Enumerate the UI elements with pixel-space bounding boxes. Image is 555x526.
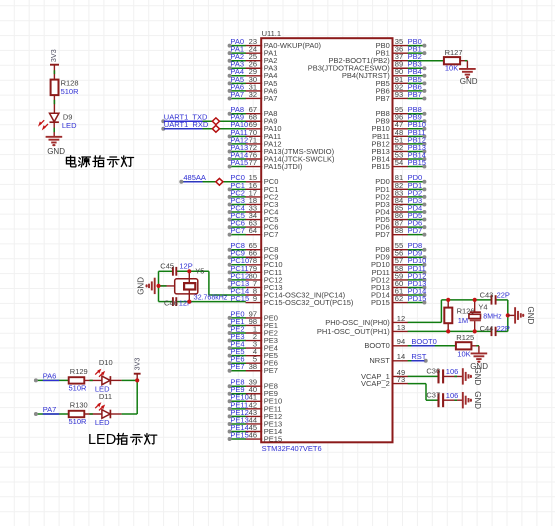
svg-text:U11.1: U11.1 [262,29,281,38]
pin 83 PD2 (right) [375,188,426,201]
pin 58 PD11 (right) [372,264,427,277]
svg-text:GND: GND [473,368,482,386]
svg-text:R125: R125 [456,333,474,342]
pin 48 PB11 (right) [372,128,426,141]
pin 42 PE11 (left) [228,400,282,413]
pin 1 PE2 (left) [228,324,278,337]
svg-text:PA7: PA7 [43,405,57,414]
svg-text:Y4: Y4 [478,303,487,312]
capacitor C37 106 [426,390,458,407]
pin 67 PA8 (left) [228,105,278,118]
svg-text:PC15-OSC32_OUT(PC15): PC15-OSC32_OUT(PC15) [264,298,354,307]
ground GND (power indicator) [46,137,66,156]
pin 66 PC9 (left) [228,249,279,262]
svg-text:C37: C37 [426,390,440,399]
pin 71 PA12 (left) [228,135,282,148]
svg-text:BOOT0: BOOT0 [364,341,389,350]
wire PA7 to R130 [34,412,69,416]
pin 61 PD14 (right) [371,286,426,299]
junction node Y4 top [473,298,477,302]
resistor R125 10K [456,333,474,358]
net port UART1_TXD [164,113,208,122]
svg-text:GND: GND [137,277,146,295]
wire PC15 to crystal (bottom rail) [159,271,246,301]
svg-text:R127: R127 [445,48,463,57]
net flag diamond PA9 [212,118,219,125]
capacitor C46 12P [164,297,192,307]
svg-text:510R: 510R [69,417,88,426]
wire BOOT0 to R125 [408,345,456,347]
svg-text:54: 54 [395,158,403,167]
pin 64 PC7 (left) [228,226,279,239]
svg-text:PE7: PE7 [230,362,244,371]
pin 69 PA10 (left) [230,120,281,133]
svg-text:STM32F407VET6: STM32F407VET6 [262,444,322,453]
svg-text:8MHz: 8MHz [483,313,502,320]
pin 4 PE5 (left) [228,347,278,360]
pin 53 PB14 (right) [371,150,426,163]
wire PA9 UART1_TXD [161,119,246,123]
svg-text:22P: 22P [497,324,510,333]
net port UART1_RXD [164,120,209,129]
svg-text:12P: 12P [179,261,192,270]
wire R130 to D11 [84,413,102,415]
net flag diamond PA10 [212,125,219,132]
LED D10 [95,358,113,393]
svg-text:BOOT0: BOOT0 [411,337,436,346]
svg-text:510R: 510R [61,87,80,96]
wire R125 to GND [471,346,479,353]
svg-text:PA7: PA7 [264,94,278,103]
pin 73 VCAP_2 [361,375,408,388]
svg-text:UART1_RXD: UART1_RXD [164,120,209,129]
pin 81 PD0 (right) [375,173,426,186]
pin 92 PB6 (right) [376,82,427,95]
pin 24 PA1 (left) [228,45,278,58]
svg-text:PE15: PE15 [264,434,282,443]
capacitor C43 22P [480,291,510,305]
resistor R126 1M [444,300,474,332]
pin 96 PB9 (right) [376,113,427,126]
LED D9 [39,112,77,130]
pin 49 VCAP_1 [361,368,408,381]
power flag 3V3 (top-left) [49,49,59,79]
pin 84 PD3 (right) [375,196,426,209]
svg-text:1M: 1M [458,316,468,325]
pin 89 PB3 (right) [308,60,427,73]
pin 33 PC4 (left) [228,203,279,216]
pin 26 PA3 (left) [228,60,278,73]
pin 46 PE15 (left) [228,430,283,443]
pin 36 PB1 (right) [376,45,427,58]
svg-text:GND: GND [473,391,482,409]
pin 9 PC15 (left) [230,294,354,307]
svg-text:PE15: PE15 [230,430,248,439]
svg-text:3V3: 3V3 [133,358,142,371]
svg-text:GND: GND [526,307,535,325]
caption 电源指示灯 [66,156,133,167]
junction node R126 top [446,298,450,302]
pin 47 PB10 (right) [371,120,426,133]
junction node Y4 bottom [473,329,477,333]
pin 70 PA11 (left) [228,128,281,141]
svg-text:C43: C43 [480,291,494,300]
resistor R130 510R [69,401,88,426]
pin 87 PD6 (right) [375,219,426,232]
resistor R127 10K [444,48,463,73]
svg-text:R130: R130 [70,401,88,410]
pin 76 PA14 (left) [228,150,335,163]
svg-text:C36: C36 [426,367,440,376]
pin 60 PD13 (right) [371,279,426,292]
pin 17 PC2 (left) [228,188,279,201]
junction node 3V3/LED rail [135,378,139,382]
wire VCAP_2 to C37 [408,384,439,401]
net label BOOT0 [411,337,436,346]
svg-text:46: 46 [249,430,257,439]
svg-text:R129: R129 [70,367,88,376]
svg-text:C45: C45 [160,261,174,270]
svg-text:GND: GND [460,77,478,86]
pin 41 PE10 (left) [228,393,283,406]
pin 52 PB13 (right) [371,143,426,156]
op-amp U11.1 STM32F407VET6 chip body [261,29,392,453]
power flag 3V3 (LED section) [133,358,142,381]
pin 32 PA7 (left) [228,90,278,103]
pin 23 PA0 (left) [228,37,322,50]
svg-text:PC7: PC7 [264,230,279,239]
svg-text:77: 77 [249,158,257,167]
pin 59 PD12 (right) [371,271,426,284]
ground GND (C37), rotated right [463,391,482,409]
pin 82 PD1 (right) [375,181,426,194]
pin 35 PB0 (right) [376,37,427,50]
svg-text:9: 9 [253,294,257,303]
svg-text:PD7: PD7 [375,230,390,239]
svg-text:14: 14 [397,352,405,361]
svg-text:22P: 22P [497,291,510,300]
svg-text:32.768kHz: 32.768kHz [194,294,228,301]
pin 51 PB12 (right) [371,135,426,148]
pin 88 PD7 (right) [375,226,426,239]
pin 45 PE14 (left) [228,423,283,436]
svg-text:C46: C46 [164,299,178,308]
svg-text:106: 106 [446,367,459,376]
pin 86 PD5 (right) [375,211,426,224]
pin 3 PE4 (left) [228,340,278,353]
svg-text:13: 13 [397,323,405,332]
svg-text:PB7: PB7 [408,90,422,99]
svg-text:510R: 510R [69,383,88,392]
net port 485AA [183,173,206,182]
svg-text:PA7: PA7 [230,90,244,99]
ground GND (R127) [459,69,478,86]
wire PA10 UART1_RXD [161,127,246,131]
svg-text:PD7: PD7 [408,226,423,235]
pin 57 PD10 (right) [371,256,426,269]
wire PB2 to R127 [408,60,444,62]
pin 34 PC5 (left) [228,211,279,224]
capacitor C36 106 [426,367,458,384]
net label RST [408,352,428,363]
crystal Y4 8MHz [469,300,502,332]
wire vertical 3V3 rail (LED section) [136,380,138,414]
wire D9 to GND [53,122,55,136]
wire D10 to 3V3 rail [110,379,137,381]
pin 85 PD4 (right) [375,203,426,216]
pin 13 PH1-OSC_OUT(PH1) [317,323,408,336]
pin 80 PC12 (left) [228,271,283,284]
svg-text:PB7: PB7 [376,94,390,103]
pin 29 PA4 (left) [228,67,278,80]
svg-text:73: 73 [397,375,405,384]
wire PH1 bottom rail [408,300,508,332]
pin 55 PD8 (right) [375,241,426,254]
ground GND (R125) [470,353,488,370]
svg-text:62: 62 [395,294,403,303]
pin 16 PC1 (left) [228,181,279,194]
svg-text:106: 106 [446,391,459,400]
svg-text:PC7: PC7 [230,226,245,235]
svg-text:3V3: 3V3 [49,49,58,62]
wire R129 to D10 [84,379,102,381]
pin 78 PC10 (left) [228,256,283,269]
svg-text:LED: LED [62,121,77,130]
svg-text:93: 93 [395,90,403,99]
pin 14 NRST [369,352,408,365]
svg-text:LED: LED [88,432,116,448]
svg-text:32: 32 [249,90,257,99]
ground GND (8MHz), rotated right [508,307,535,325]
junction node crystal bottom [187,300,191,304]
pin 94 BOOT0 [364,337,408,350]
svg-text:D11: D11 [99,392,112,401]
svg-text:PD15: PD15 [408,294,427,303]
svg-text:10K: 10K [457,349,470,358]
svg-text:38: 38 [249,362,257,371]
svg-text:NRST: NRST [369,356,390,365]
resistor R128 510R [51,78,80,95]
ground GND (C36), rotated right [463,368,482,386]
svg-text:GND: GND [47,147,65,156]
LED D11 [95,392,112,427]
pin 12 PH0-OSC_IN(PH0) [325,314,408,327]
wire C36 to GND [443,375,463,377]
pin 37 PB2 (right) [329,52,422,65]
pin 38 PE7 (left) [228,362,278,375]
pin 7 PC13 (left) [228,279,283,292]
pin 5 PE6 (left) [228,355,278,368]
svg-text:PD15: PD15 [371,298,390,307]
svg-text:Y5: Y5 [195,267,204,276]
pin 30 PA5 (left) [228,75,278,88]
svg-text:PB15: PB15 [408,158,426,167]
net flag diamond PC0 [216,178,223,185]
wire D11 to 3V3 rail [110,413,137,415]
pin 56 PD9 (right) [375,249,426,262]
wire R128 to D9 [53,95,55,113]
net label PA6 [43,371,60,380]
pin 77 PA15 (left) [228,158,303,171]
svg-text:PA15(JTDI): PA15(JTDI) [264,162,303,171]
svg-text:485AA: 485AA [183,173,206,182]
pin 95 PB8 (right) [376,105,427,118]
pin 68 PA9 (left) [230,113,277,126]
pin 62 PD15 (right) [371,294,426,307]
junction node crystal top [187,269,191,273]
pin 79 PC11 (left) [228,264,282,277]
pin 43 PE12 (left) [228,408,283,421]
pin 39 PE8 (left) [228,378,278,391]
svg-text:D10: D10 [99,358,113,367]
svg-text:12: 12 [397,314,405,323]
svg-text:LED: LED [95,418,110,427]
junction node R126 bottom [446,329,450,333]
pin 25 PA2 (left) [228,52,278,65]
pin 90 PB4 (right) [342,67,427,80]
pin 8 PC14 (left) [230,286,345,299]
pin 63 PC6 (left) [228,219,279,232]
svg-text:94: 94 [397,337,405,346]
capacitor C45 12P [160,261,192,275]
resistor R129 510R [69,367,88,392]
wire VCAP_1 to C36 [408,375,439,377]
svg-text:RST: RST [411,352,426,361]
svg-text:64: 64 [249,226,257,235]
svg-text:PH1-OSC_OUT(PH1): PH1-OSC_OUT(PH1) [317,327,390,336]
svg-text:PA6: PA6 [43,371,57,380]
pin 91 PB5 (right) [376,75,427,88]
svg-text:88: 88 [395,226,403,235]
pin 31 PA6 (left) [228,82,278,95]
svg-text:PE7: PE7 [264,366,278,375]
wire R127 to GND [460,61,467,69]
svg-text:C44: C44 [480,324,494,333]
svg-text:VCAP_2: VCAP_2 [361,379,390,388]
capacitor C44 22P [480,324,510,336]
pin 15 PC0 (left) [230,173,278,186]
pin 72 PA13 (left) [228,143,335,156]
wire PA6 to R129 [34,378,69,382]
wire PH0 to top rail [408,300,508,323]
pin 97 PE0 (left) [228,309,278,322]
junction node GND tap 8MHz [506,313,510,317]
pin 98 PE1 (left) [228,317,278,330]
pin 40 PE9 (left) [228,385,278,398]
wire PC0 485AA [179,180,246,184]
wire C37 to GND [443,399,463,401]
pin 93 PB7 (right) [376,90,427,103]
pin 2 PE3 (left) [228,332,278,345]
svg-text:10K: 10K [445,64,458,73]
ground GND (32k crystal), rotated left [137,277,155,295]
pin 65 PC8 (left) [228,241,279,254]
svg-text:PA15: PA15 [230,158,248,167]
svg-text:PH0-OSC_IN(PH0): PH0-OSC_IN(PH0) [325,318,390,327]
pin 18 PC3 (left) [228,196,279,209]
pin 44 PE13 (left) [228,415,283,428]
crystal Y5 32.768kHz [159,267,228,302]
pin 54 PB15 (right) [371,158,426,171]
svg-text:PB15: PB15 [371,162,389,171]
net label PA7 [43,405,60,414]
junction node GND tap [156,284,160,288]
caption LED指示灯 [88,432,157,448]
wire PC14 to crystal (top rail) [159,271,246,295]
